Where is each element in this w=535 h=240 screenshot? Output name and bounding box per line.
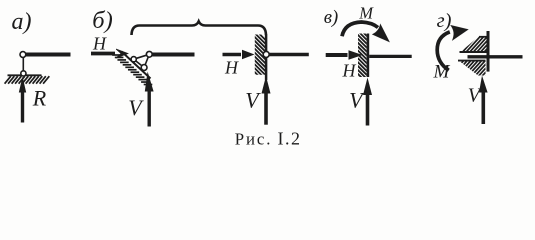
svg-text:в): в) bbox=[324, 7, 339, 28]
svg-text:R: R bbox=[32, 86, 47, 111]
svg-text:Н: Н bbox=[92, 34, 107, 54]
svg-text:I.2: I.2 bbox=[278, 129, 302, 149]
svg-text:М: М bbox=[358, 3, 374, 22]
svg-text:а): а) bbox=[12, 9, 32, 35]
svg-text:б): б) bbox=[92, 7, 112, 34]
svg-text:Рис.: Рис. bbox=[235, 130, 273, 149]
svg-text:Н: Н bbox=[224, 58, 239, 78]
svg-text:г): г) bbox=[437, 10, 452, 32]
svg-text:Н: Н bbox=[342, 61, 357, 81]
